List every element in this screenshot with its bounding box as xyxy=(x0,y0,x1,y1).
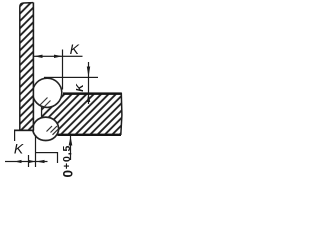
svg-text:K: K xyxy=(70,41,80,57)
svg-text:K: K xyxy=(14,140,24,156)
